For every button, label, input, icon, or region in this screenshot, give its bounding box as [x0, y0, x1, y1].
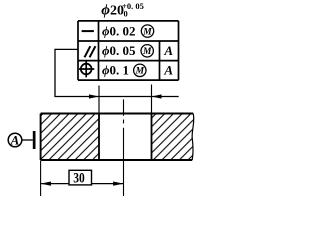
svg-text:ϕ0. 1: ϕ0. 1 — [102, 63, 129, 78]
svg-text:A: A — [163, 63, 173, 78]
svg-text:A: A — [10, 132, 20, 147]
svg-text:ϕ0. 02: ϕ0. 02 — [102, 23, 136, 38]
svg-text:0: 0 — [124, 8, 128, 18]
svg-text:M: M — [135, 67, 145, 77]
svg-text:M: M — [142, 47, 152, 57]
svg-text:ϕ20: ϕ20 — [101, 3, 124, 19]
svg-text:M: M — [142, 27, 152, 37]
svg-text:ϕ0. 05: ϕ0. 05 — [102, 43, 136, 58]
svg-text:30: 30 — [73, 170, 85, 186]
svg-text:A: A — [163, 43, 173, 58]
